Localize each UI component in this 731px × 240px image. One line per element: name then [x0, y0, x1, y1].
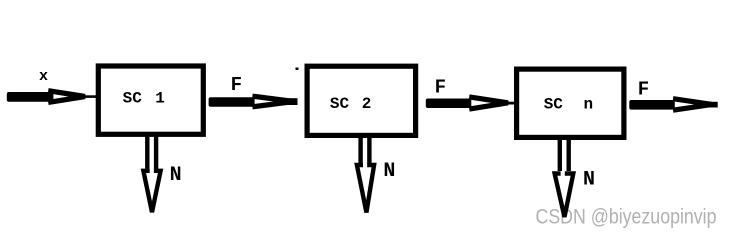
- down arrow N2: channel erase: [363, 160, 367, 172]
- svg-text:SC: SC: [123, 90, 143, 108]
- down arrow N2: shaft lines: [358, 133, 362, 164]
- input arrow x: bar end restore: [50, 92, 53, 101]
- stray dot near box SC2 top-left: [296, 68, 299, 71]
- input arrow x: hollow head: [51, 91, 85, 102]
- input arrow x: tip line to box: [78, 95, 98, 98]
- svg-text:F: F: [435, 76, 446, 98]
- down arrow N3: shaft lines: [558, 136, 562, 171]
- down arrow N1: shaft lines: [145, 133, 149, 170]
- svg-text:1: 1: [155, 90, 165, 108]
- svg-text:SC: SC: [330, 95, 350, 113]
- arrow F2: shaft: [426, 99, 472, 109]
- arrow F2: tip line to box: [505, 102, 516, 105]
- svg-text:N: N: [383, 160, 395, 183]
- output arrow F3: blunt tip: [709, 102, 718, 108]
- svg-text:SC: SC: [544, 95, 564, 113]
- input arrow x: shaft: [7, 92, 54, 102]
- box SC1: [98, 66, 203, 134]
- arrow F1: blunt tip: [288, 98, 298, 105]
- box SCn: [517, 69, 624, 137]
- svg-text:N: N: [583, 169, 595, 192]
- svg-text:F: F: [638, 79, 649, 101]
- down arrow N1: head: [143, 171, 160, 212]
- arrow F2: hollow head: [472, 97, 508, 108]
- output arrow F3: shaft: [629, 100, 675, 110]
- box SC2: [307, 66, 416, 135]
- svg-text:x: x: [39, 68, 48, 85]
- svg-text:2: 2: [362, 95, 372, 113]
- arrow F1: shaft: [209, 97, 255, 106]
- down arrow N1: channel erase: [150, 165, 154, 177]
- svg-text:N: N: [170, 164, 182, 187]
- down arrow N3: head: [555, 174, 574, 218]
- down arrow N3: channel erase: [561, 168, 565, 180]
- down arrow N2: head: [357, 165, 374, 213]
- arrow F1: hollow head: [255, 97, 294, 107]
- svg-text:F: F: [231, 74, 242, 96]
- output arrow F3: hollow head: [676, 99, 712, 110]
- svg-text:n: n: [584, 95, 594, 113]
